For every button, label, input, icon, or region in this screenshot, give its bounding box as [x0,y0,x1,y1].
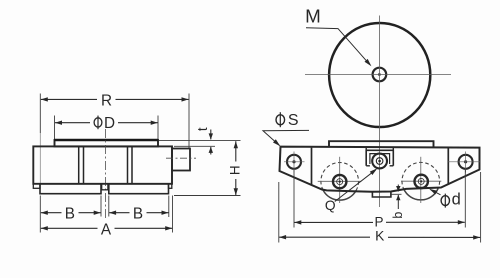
svg-text:M: M [305,5,321,26]
svg-text:R: R [101,93,112,110]
svg-text:K: K [375,228,385,243]
label phiD [94,118,102,127]
svg-text:A: A [101,221,112,238]
left roller lower arc [323,190,356,200]
suspension U-bracket outer [366,150,393,166]
dimension t extension bottom [174,145,215,147]
leader phiS [263,130,309,145]
body block [33,146,172,183]
dimension P line [294,221,373,223]
U-bracket feet [366,165,370,167]
dimension A extension right [172,196,174,233]
dimension b arrows [397,185,399,192]
dimension B left line [41,212,62,214]
dimension b extension line [392,193,402,195]
dimension t arrows [210,130,212,140]
right roller lower arc [404,189,438,200]
right bottom pad [109,184,169,194]
left small step [33,184,40,189]
body divider line 1a [78,146,80,183]
wheel M outer circle [329,23,430,127]
wheel hub circle [373,68,387,82]
bracket plate outline [280,147,480,192]
svg-text:d: d [452,190,461,208]
top plate [55,140,159,146]
right roller hub [415,175,428,188]
svg-text:Q: Q [325,198,336,213]
dimension phiD line with arrows [55,122,90,124]
svg-text:B: B [65,206,75,223]
dimension R extension line right [188,94,190,149]
left end hole [287,155,301,169]
dimension phiD extension line left [54,116,56,140]
left roller crosshair [318,180,362,182]
tab axis dashed line [166,157,196,159]
left roller hub [333,175,346,188]
dimension P extension lines [293,170,295,228]
center support block [102,184,108,190]
dimension H line with arrows [235,141,237,161]
dimension R extension line left [39,94,41,134]
leader phi-d [431,190,441,195]
leader M [306,28,370,65]
suspension bolt [372,154,387,169]
right side-plate inner edge [447,148,449,185]
svg-text:B: B [133,206,143,223]
vertical centerline of left view [105,129,107,219]
svg-text:S: S [288,112,299,129]
dimension R line with arrows [41,98,97,100]
raised top plate [329,141,434,147]
right roller dashed circle [402,162,440,200]
right small step [169,184,172,189]
label phi-d [441,196,449,206]
dimension B right line [109,212,129,214]
body divider line 2b [131,146,133,183]
dimension phiD extension line right [157,116,159,140]
wheel vertical centerline [378,16,380,141]
label phiS [276,115,285,125]
leader Q [335,170,376,202]
body divider line 1b [83,146,85,183]
right roller crosshair [401,180,441,182]
wheel horizontal centerline [305,74,451,76]
right tab block [172,149,190,171]
wheel center dot [378,73,381,76]
dimension A line [41,227,98,229]
dimension B extension lines [39,196,41,233]
body divider line 2a [127,146,129,183]
svg-text:t: t [195,127,210,131]
left roller dashed circle [321,163,359,201]
suspension U-bracket inner [370,154,390,164]
svg-text:b: b [391,212,405,219]
bottom center tab [372,192,391,198]
left bottom pad [40,184,101,194]
dimension t extension top [159,139,241,141]
dimension K line [279,236,370,238]
svg-text:H: H [228,165,243,175]
left side-plate inner edge [311,148,313,185]
dimension H extension bottom [174,195,241,197]
dimension K extension lines [278,182,280,243]
right end hole [459,155,473,169]
